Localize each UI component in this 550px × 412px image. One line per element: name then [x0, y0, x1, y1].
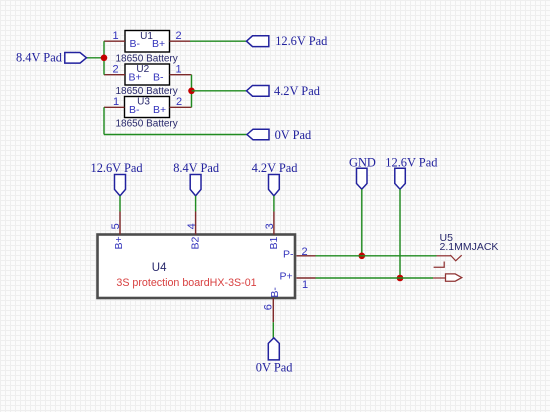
svg-text:12.6V Pad: 12.6V Pad	[91, 161, 144, 175]
pad 0V flag (bottom)	[268, 338, 279, 360]
wire GND to P- net	[361, 189, 363, 256]
wire U3.1 down vertical	[103, 107, 105, 134]
pad 12.6V flag (top)	[247, 36, 269, 47]
svg-text:2: 2	[176, 30, 182, 42]
wire U4.6 to 0V pad	[272, 322, 274, 338]
wire U2.1 to U3.2 vertical	[191, 75, 193, 108]
svg-text:B-: B-	[130, 38, 141, 50]
wire 4.2V flag to U4.3	[273, 196, 275, 212]
svg-text:1: 1	[302, 279, 308, 291]
battery U3 body	[125, 97, 170, 118]
svg-text:2.1MMJACK: 2.1MMJACK	[440, 241, 499, 253]
svg-text:8.4V Pad: 8.4V Pad	[173, 161, 220, 175]
wire junction to 4.2V pad	[192, 90, 247, 92]
wire U1.2 to 12.6V pad	[190, 40, 247, 42]
svg-text:2: 2	[176, 96, 182, 108]
wire 0V rail to 0V pad	[104, 134, 247, 136]
svg-text:U3: U3	[137, 96, 150, 107]
svg-text:4.2V Pad: 4.2V Pad	[274, 84, 321, 98]
U5 tip contact chevron	[450, 255, 461, 261]
svg-text:18650 Battery: 18650 Battery	[116, 53, 178, 64]
U5 sleeve contact arrow	[446, 274, 462, 281]
svg-text:B+: B+	[153, 104, 166, 116]
svg-text:2: 2	[302, 246, 308, 258]
svg-text:1: 1	[113, 96, 119, 108]
svg-text:P-: P-	[283, 249, 294, 261]
svg-text:1: 1	[176, 64, 182, 76]
svg-text:0V Pad: 0V Pad	[275, 128, 312, 142]
svg-text:18650 Battery: 18650 Battery	[116, 86, 178, 97]
U5 pin 1 stub	[437, 255, 451, 257]
svg-text:B-: B-	[153, 71, 164, 83]
junction 12.6V on P+	[397, 275, 404, 282]
battery U2 body	[125, 64, 170, 85]
svg-text:6: 6	[262, 304, 274, 310]
pad 8.4V flag (U4 top)	[190, 175, 201, 196]
svg-text:B2: B2	[190, 236, 202, 249]
U4 pin 2 (P-)	[297, 246, 316, 258]
svg-text:1: 1	[113, 30, 119, 42]
pad GND flag	[357, 168, 368, 189]
svg-text:B1: B1	[268, 236, 280, 249]
svg-text:GND: GND	[349, 155, 376, 169]
wire U1.1 to U2.2 vertical	[103, 41, 105, 74]
U3 pin 1	[104, 96, 125, 108]
U4 pin 3	[264, 212, 276, 235]
pad 8.4V flag	[65, 53, 87, 64]
U1 pin 2	[170, 30, 191, 42]
svg-text:U4: U4	[152, 262, 167, 274]
svg-text:4.2V Pad: 4.2V Pad	[252, 161, 299, 175]
svg-text:B-: B-	[269, 287, 281, 298]
svg-text:U2: U2	[136, 64, 149, 75]
pad 4.2V flag (U4 top)	[269, 175, 280, 196]
wire 8.4V flag to U4.4	[195, 196, 197, 212]
svg-text:18650 Battery: 18650 Battery	[116, 118, 178, 129]
wire P+ net	[316, 277, 434, 279]
svg-text:B+: B+	[152, 38, 165, 50]
wire 12.6V flag to U4.5	[119, 196, 121, 212]
wire 12.6V to P+ net	[399, 189, 401, 278]
protection board U4 body	[98, 235, 296, 299]
svg-text:2: 2	[113, 64, 119, 76]
svg-text:B+: B+	[113, 236, 125, 249]
U5 pin 2 stub	[433, 277, 446, 279]
wire 8.4V pad to junction	[87, 57, 105, 59]
svg-text:U1: U1	[140, 31, 153, 42]
svg-text:5: 5	[110, 223, 122, 229]
svg-text:12.6V Pad: 12.6V Pad	[385, 155, 438, 169]
svg-text:4: 4	[186, 223, 198, 229]
U3 pin 2	[170, 96, 192, 108]
svg-text:0V Pad: 0V Pad	[256, 361, 293, 375]
svg-text:3: 3	[264, 223, 276, 229]
svg-text:12.6V Pad: 12.6V Pad	[275, 34, 328, 48]
pad 12.6V flag (U4 top)	[115, 175, 126, 196]
junction GND on P-	[359, 253, 366, 260]
svg-text:P+: P+	[280, 271, 293, 283]
battery U1 body	[125, 31, 170, 53]
wire P- net	[316, 255, 437, 257]
svg-text:3S protection boardHX-3S-01: 3S protection boardHX-3S-01	[116, 277, 256, 289]
U4 pin 1 (P+)	[297, 278, 316, 291]
junction at 8.4V tap	[101, 55, 108, 62]
svg-text:8.4V Pad: 8.4V Pad	[16, 51, 63, 65]
U1 pin 1	[104, 30, 125, 42]
U2 pin 1	[170, 64, 192, 76]
pad 12.6V flag (right)	[395, 168, 406, 189]
U4 pin 6 (B-)	[262, 298, 274, 322]
junction at 4.2V tap	[188, 88, 195, 95]
pad 0V flag (top section)	[247, 129, 269, 140]
U5 switch contact	[434, 262, 445, 268]
U4 pin 4	[186, 212, 198, 235]
U4 pin 5	[110, 212, 122, 235]
U2 pin 2	[104, 64, 125, 76]
pad 4.2V flag	[247, 86, 270, 97]
